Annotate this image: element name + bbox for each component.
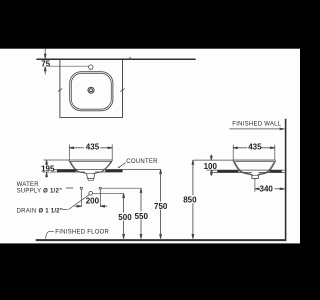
svg-text:DRAIN Ø 1 1/2": DRAIN Ø 1 1/2"	[17, 208, 63, 214]
dimension 75 upper arrow	[44, 49, 46, 59]
drain leader dash	[63, 209, 68, 211]
counter lines (right)	[212, 170, 284, 172]
counter tick for 100	[207, 169, 213, 171]
dimension 195 line and arrows	[46, 160, 48, 178]
centre tick right edge	[120, 89, 124, 92]
counter extension to 750	[122, 168, 160, 170]
drain inner circle (plan)	[90, 89, 93, 92]
drain diagonal leader	[69, 195, 90, 210]
dimension 195 extension top	[44, 159, 113, 161]
counter lines (front view)	[43, 169, 122, 172]
dimension 550 vertical	[140, 188, 142, 239]
basin front view inner rim line	[70, 160, 112, 162]
counter hatch left strip	[57, 170, 76, 172]
break tick on wall line	[129, 57, 131, 59]
dimension text 195	[41, 166, 54, 172]
rim extension to 850 and right basin	[193, 159, 233, 161]
faucet centerline	[48, 65, 88, 67]
basin front view inner bowl line	[71, 162, 111, 174]
white drawing band	[0, 49, 300, 244]
svg-text:75: 75	[41, 59, 50, 68]
water supply point left	[80, 187, 82, 189]
svg-text:340: 340	[260, 184, 274, 193]
counter hatch left strip (right fig)	[217, 170, 238, 172]
svg-text:SUPPLY Ø 1/2": SUPPLY Ø 1/2"	[17, 188, 63, 194]
drain extension for 340	[254, 178, 256, 191]
dimension 340 line and arrows	[255, 188, 285, 190]
dimension 750 vertical	[160, 169, 162, 238]
dimension 850 vertical	[192, 160, 194, 239]
water supply dashed leader	[66, 187, 73, 189]
svg-text:435: 435	[248, 142, 262, 151]
counter outline (plan view)	[60, 59, 123, 117]
COUNTER leader	[119, 163, 126, 168]
finished wall vertical	[285, 119, 287, 241]
svg-text:200: 200	[86, 197, 100, 206]
drain pipe circle (front)	[89, 191, 93, 195]
dimension 200 arrows	[75, 205, 108, 207]
drain flange line (side view)	[251, 174, 260, 176]
basin outer rim (plan view squircle)	[70, 72, 113, 111]
wall line (plan view, top)	[36, 58, 195, 60]
dimension 435 (right) extension lines	[233, 145, 275, 161]
dimension text 750	[154, 202, 167, 210]
svg-text:750: 750	[154, 202, 168, 211]
dimension 200 extension lines	[82, 190, 101, 207]
dimension text 100	[203, 162, 215, 169]
svg-text:195: 195	[41, 164, 55, 173]
basin side view outer profile	[233, 160, 276, 178]
dimension 500 vertical	[123, 193, 125, 238]
black letterbox bottom bar	[0, 244, 300, 300]
finished wall leader underline with arrow	[230, 128, 285, 130]
basin front view outer profile	[69, 160, 112, 178]
svg-text:FINISHED WALL: FINISHED WALL	[232, 122, 281, 128]
drain line to 500 dimension	[93, 192, 124, 194]
basin side view inner rim line	[234, 160, 274, 162]
svg-text:WATER: WATER	[17, 182, 40, 188]
svg-text:550: 550	[135, 212, 149, 221]
basin side view inner bowl line	[235, 162, 275, 176]
dimension text 500	[118, 213, 131, 221]
dimension 75 lower arrow	[44, 67, 46, 75]
dimension 435 (front) extension lines	[69, 144, 112, 160]
water supply point right	[99, 187, 101, 189]
dimension 435 (right) line and arrows	[233, 147, 275, 149]
dimension text 850	[183, 195, 197, 203]
centre tick left edge	[58, 89, 62, 92]
finished floor leader	[46, 231, 54, 238]
drain outer circle (plan)	[88, 87, 94, 93]
svg-text:FINISHED FLOOR: FINISHED FLOOR	[55, 229, 109, 235]
svg-text:500: 500	[118, 213, 132, 222]
black letterbox top bar	[0, 0, 300, 49]
drain tailpipe (front view)	[88, 178, 93, 180]
counter hatch right strip	[105, 170, 122, 172]
dimension text 550	[135, 211, 148, 219]
faucet hole	[89, 65, 93, 69]
svg-text:850: 850	[183, 196, 197, 205]
counter hatch right strip (right fig)	[270, 170, 282, 172]
svg-text:COUNTER: COUNTER	[126, 159, 158, 165]
dimension 100 arrows	[210, 154, 212, 176]
supply line to 550 dimension	[101, 187, 141, 189]
drain flange line (front view)	[86, 173, 95, 175]
svg-text:435: 435	[86, 142, 100, 151]
basin inner rim (plan view)	[71, 73, 111, 109]
dimension 435 (front) line and arrows	[69, 147, 112, 149]
svg-text:100: 100	[204, 162, 218, 171]
finished floor line	[36, 239, 287, 241]
